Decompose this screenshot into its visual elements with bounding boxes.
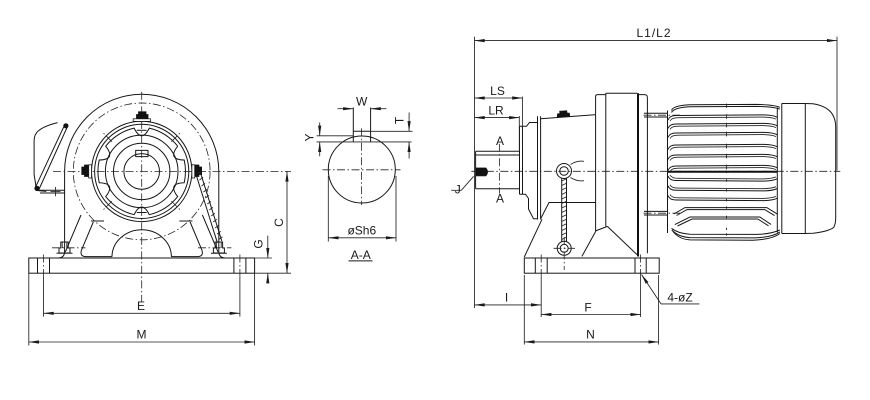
svg-text:LR: LR	[488, 104, 504, 118]
housing outer contour (circle + tangent pedestal sides)	[29, 94, 255, 258]
pedestal right leg outer edge	[202, 215, 218, 252]
dimension N	[524, 275, 658, 345]
cover plate bottom bracket	[39, 187, 65, 196]
section centerline horizontal	[323, 169, 401, 171]
circle top extension line	[317, 135, 354, 137]
motor fin center tick marks	[726, 104, 728, 236]
leader 4-ØZ	[642, 275, 700, 305]
dimension LS	[475, 84, 523, 150]
base slot left	[38, 255, 50, 278]
dimension C	[255, 171, 291, 273]
svg-text:W: W	[356, 95, 368, 109]
foot bolt left	[52, 242, 85, 253]
section centerline vertical	[361, 128, 363, 205]
motor fins lower	[668, 175, 777, 201]
svg-text:A-A: A-A	[351, 248, 371, 262]
oil gauge bottom eye	[554, 237, 576, 270]
svg-text:LS: LS	[490, 84, 505, 98]
pedestal left leg inner edge	[81, 222, 112, 257]
cover bolt left	[82, 165, 92, 178]
svg-text:øSh6: øSh6	[347, 224, 376, 238]
dimension W	[338, 95, 387, 109]
foot bolt right	[198, 242, 231, 253]
diagonal centerline tick top-left	[102, 132, 112, 142]
motor front face	[667, 111, 669, 234]
key slot sides	[353, 108, 370, 142]
motor fin right edge	[776, 107, 778, 232]
motor bottom crown	[672, 228, 780, 240]
svg-text:J: J	[455, 182, 461, 196]
svg-text:4-øZ: 4-øZ	[667, 291, 692, 305]
oil level gauge top eye	[557, 161, 585, 181]
motor bottom trapezoid fin 1	[674, 208, 778, 216]
dimension F	[541, 277, 640, 317]
hub circle	[114, 143, 170, 199]
diagonal centerline tick bottom-left	[102, 201, 112, 211]
bolt-circle centerline (dash-dot circle)	[73, 103, 210, 240]
svg-text:E: E	[137, 299, 145, 313]
center arch	[112, 230, 171, 257]
motor top crown	[672, 104, 780, 112]
housing split line tick left	[91, 220, 104, 222]
base left slope	[524, 219, 542, 257]
leader J	[451, 176, 473, 196]
svg-text:L1/L2: L1/L2	[636, 26, 671, 40]
dimension T	[393, 113, 410, 159]
gearcase verticals	[596, 93, 648, 256]
svg-text:A: A	[496, 134, 504, 148]
svg-text:A: A	[496, 192, 504, 206]
svg-text:I: I	[505, 291, 508, 305]
cover bolt right	[192, 165, 202, 178]
dimension G	[252, 236, 273, 284]
motor adapter boss top	[644, 113, 681, 117]
cover plate outline	[34, 123, 57, 192]
svg-text:G: G	[252, 239, 266, 248]
scalloped ring inner circle	[105, 135, 178, 208]
key top line	[353, 130, 412, 132]
bearing cover circle outer	[92, 121, 192, 221]
svg-text:T: T	[393, 116, 407, 124]
gearcase top profile	[541, 93, 648, 119]
svg-text:C: C	[272, 218, 286, 227]
oil filler plug	[557, 111, 570, 118]
tie rod diagonal with hatching	[196, 171, 222, 242]
fan cover dome	[805, 104, 835, 234]
svg-text:N: N	[586, 328, 595, 342]
motor center band	[668, 171, 777, 173]
section line A-A	[496, 134, 504, 205]
housing split line tick right	[179, 220, 192, 222]
scalloped cover ring outer edge	[98, 128, 186, 215]
dimension L1/L2	[475, 26, 838, 308]
motor bottom trapezoid fin 2	[675, 217, 771, 226]
base block	[29, 258, 255, 273]
base block side view	[524, 258, 659, 273]
bearing cap	[520, 123, 538, 219]
centerline horizontal	[53, 170, 291, 172]
oil gauge rod with hatching	[562, 178, 567, 241]
base slot right	[234, 255, 246, 278]
bearing cover circle inner	[95, 124, 189, 218]
terminal cover plate (tilted bar)	[34, 123, 68, 191]
motor adapter boss bottom	[644, 211, 681, 215]
base inner left slope	[582, 230, 596, 256]
dimension Y	[303, 123, 320, 157]
dimension I	[475, 277, 542, 317]
dimension M	[29, 273, 255, 345]
main horizontal centerline	[471, 170, 840, 172]
dimension LR	[475, 104, 520, 150]
base right slope	[607, 226, 639, 256]
gearcase front flange	[538, 116, 541, 219]
motor fins upper	[668, 115, 777, 172]
svg-text:Y: Y	[303, 133, 317, 141]
pedestal right leg inner edge	[171, 222, 202, 257]
gearcase bottom	[541, 203, 608, 231]
diagonal centerline tick bottom-right	[171, 201, 181, 211]
cover bolt top	[133, 112, 150, 122]
centerline vertical	[141, 92, 143, 302]
dimension ØSh6	[328, 176, 396, 242]
dimension E	[44, 277, 240, 317]
view label A-A	[349, 248, 373, 262]
shaft bore circle	[124, 154, 160, 190]
key bottom line	[317, 141, 412, 143]
shaft keyway	[136, 150, 148, 156]
output shaft	[476, 151, 520, 189]
pedestal left leg outer edge	[65, 215, 81, 252]
base slot right side view	[635, 255, 646, 278]
svg-text:F: F	[584, 300, 591, 314]
diagonal centerline tick 45deg top-right	[171, 132, 181, 142]
fan cover band	[782, 104, 806, 234]
base slot left side view	[535, 255, 547, 278]
shaft section circle	[328, 136, 395, 203]
svg-text:M: M	[137, 328, 147, 342]
shaft center hole plug	[476, 168, 488, 176]
